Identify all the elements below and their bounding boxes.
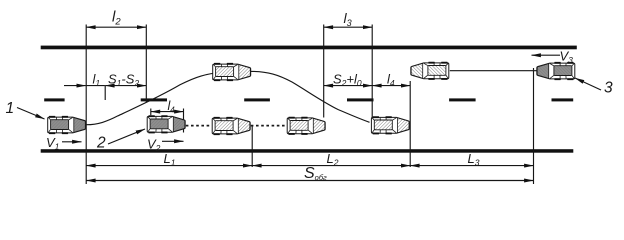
svg-text:1: 1	[6, 100, 15, 117]
car 2 (gray)	[147, 115, 185, 133]
top road edge line	[41, 46, 577, 50]
S2+l0 dim	[324, 85, 373, 87]
extension line x=324	[323, 25, 325, 118]
S1-S2 dim segment	[105, 85, 146, 87]
svg-text:V3: V3	[560, 49, 574, 66]
S obg dim	[86, 180, 533, 182]
extension line x=86 (main left)	[85, 25, 87, 185]
car at end of curve (hatched)	[371, 116, 409, 134]
svg-text:V1: V1	[46, 135, 60, 152]
extension line x=372	[371, 25, 373, 121]
svg-text:3: 3	[604, 80, 613, 97]
svg-text:L3: L3	[468, 151, 480, 167]
extension line x=409.8	[409, 81, 411, 167]
L1 dim	[86, 165, 252, 167]
dimension l2	[86, 26, 146, 28]
l4 right dim	[372, 85, 410, 87]
top car on curve (hatched)	[213, 63, 251, 81]
V3 arrow	[532, 54, 561, 56]
extension lines for l4 left dim	[150, 109, 152, 116]
svg-text:S1-S2: S1-S2	[108, 72, 139, 89]
bottom road edge line	[41, 149, 574, 153]
lane divider dash 6	[552, 98, 574, 101]
svg-text:Sобг: Sобг	[304, 165, 327, 182]
svg-text:l3: l3	[344, 10, 352, 28]
svg-text:V2: V2	[147, 137, 161, 154]
svg-text:l1: l1	[93, 72, 101, 89]
outside arrow pointing at x=86 on mid dim line	[64, 85, 86, 87]
svg-text:S2+l0: S2+l0	[333, 72, 362, 89]
leader arrow for label 2	[108, 129, 145, 144]
oncoming car position A (hatched, facing left)	[411, 62, 449, 80]
dotted trajectory segment between ghost car A and ghost car B	[251, 125, 286, 127]
ghost car A (hatched)	[212, 117, 250, 135]
svg-text:l4: l4	[168, 99, 176, 115]
overtaking trajectory curve	[87, 71, 370, 124]
L2 dim	[252, 165, 410, 167]
svg-text:2: 2	[96, 135, 106, 152]
lane divider dash 5	[449, 98, 476, 101]
car 1 (gray)	[48, 116, 86, 134]
l1 dim segment	[86, 85, 105, 87]
V2 arrow	[162, 140, 184, 142]
svg-text:L1: L1	[164, 151, 176, 167]
svg-text:L2: L2	[327, 151, 339, 167]
tick x=104.9 below l1	[104, 86, 106, 100]
V1 arrow	[62, 141, 82, 143]
lane divider dash 1	[44, 98, 64, 101]
lane divider dash 3	[244, 98, 270, 101]
lane divider dash 2	[141, 98, 167, 101]
leader arrow for label 3	[575, 78, 601, 90]
l4 left dim	[151, 111, 184, 113]
extension line x=533.5	[533, 68, 535, 184]
svg-text:l2: l2	[112, 9, 121, 28]
leader arrow for label 1	[17, 108, 45, 120]
connecting line between oncoming car positions	[450, 70, 538, 72]
extension line x=146.3	[145, 25, 147, 103]
ghost car B (hatched)	[287, 117, 325, 135]
dimension l3	[324, 26, 373, 28]
L3 dim	[410, 165, 533, 167]
car 3 (gray, facing left)	[537, 62, 575, 80]
dotted trajectory segment between car 2 and ghost car A	[186, 125, 212, 127]
extension line x=252	[251, 126, 253, 167]
lane divider dash 4	[347, 98, 374, 101]
svg-text:l4: l4	[387, 72, 395, 89]
